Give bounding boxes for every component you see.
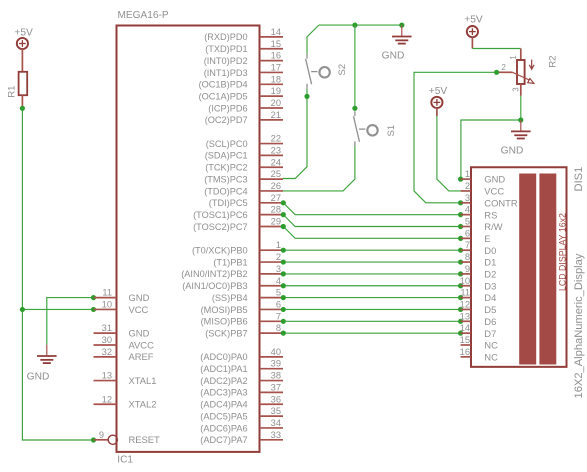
wire R2 wiper to LCD CONTR <box>414 72 497 203</box>
svg-text:32: 32 <box>102 347 112 357</box>
pin 37 (ADC3)PA3 <box>200 382 283 397</box>
svg-text:16X2_AlphaNumeric_Display: 16X2_AlphaNumeric_Display <box>573 253 585 398</box>
svg-text:(OC2)PD7: (OC2)PD7 <box>205 115 248 125</box>
svg-text:13: 13 <box>460 311 470 321</box>
pin 7 (MISO)PB6 <box>201 311 283 326</box>
svg-text:(ADC3)PA3: (ADC3)PA3 <box>200 388 247 398</box>
svg-text:4: 4 <box>276 276 281 286</box>
svg-text:3: 3 <box>511 87 520 91</box>
wire PB3 to LCD D3 <box>283 285 460 287</box>
svg-text:16: 16 <box>271 51 281 61</box>
pin 22 (SCL)PC0 <box>206 134 283 149</box>
resistor R1 <box>19 72 28 107</box>
wire PB1 to LCD D1 <box>283 261 460 263</box>
svg-text:D6: D6 <box>484 316 496 327</box>
label MEGA16-P <box>118 10 169 21</box>
label IC1 <box>117 455 133 466</box>
svg-text:11: 11 <box>102 288 112 298</box>
R2 pin number 2 <box>502 63 506 72</box>
svg-text:6: 6 <box>276 299 281 309</box>
svg-text:15: 15 <box>460 335 470 345</box>
svg-text:34: 34 <box>271 418 281 428</box>
junction LCD D5 <box>458 307 463 312</box>
pin 29 (TOSC2)PC7 <box>193 217 283 232</box>
svg-text:8: 8 <box>465 252 470 262</box>
pin 14 (RXD)PD0 <box>204 27 283 42</box>
R2 pin number 3 <box>511 87 520 91</box>
svg-text:(T0/XCK)PB0: (T0/XCK)PB0 <box>192 246 248 256</box>
junction R2 ground <box>518 117 523 122</box>
svg-text:12: 12 <box>460 299 470 309</box>
pin 26 (TDO)PC4 <box>204 181 283 196</box>
svg-text:VCC: VCC <box>484 186 504 197</box>
svg-text:40: 40 <box>271 347 281 357</box>
svg-text:GND: GND <box>382 51 405 62</box>
switch S2 <box>306 54 330 89</box>
svg-text:(ADC6)PA6: (ADC6)PA6 <box>200 423 247 433</box>
svg-text:(TCK)PC2: (TCK)PC2 <box>205 163 247 173</box>
svg-text:R/W: R/W <box>484 221 502 232</box>
junction pin PB0 <box>281 248 286 253</box>
junction bus S1 branch <box>352 23 357 28</box>
svg-text:18: 18 <box>271 74 281 84</box>
pin 17 (INT1)PD3 <box>204 62 283 77</box>
svg-text:16: 16 <box>460 347 470 357</box>
wire bus to S2 top <box>307 25 319 54</box>
pin 36 (ADC4)PA4 <box>200 394 283 409</box>
junction rail VCC branch <box>20 307 25 312</box>
junction pin at (TOSC1)PC6 <box>281 212 286 217</box>
junction pin PB1 <box>281 259 286 264</box>
svg-text:8: 8 <box>276 323 281 333</box>
lcd pin 13 D6 <box>460 311 497 327</box>
ic U1 MEGA16-P body <box>117 26 260 452</box>
svg-text:9: 9 <box>465 264 470 274</box>
svg-text:MEGA16-P: MEGA16-P <box>118 10 169 21</box>
junction LCD E <box>458 236 463 241</box>
svg-text:(SS)PB4: (SS)PB4 <box>212 293 248 303</box>
svg-text:S1: S1 <box>386 125 397 137</box>
wire PB0 to LCD D0 <box>283 249 460 251</box>
svg-text:3: 3 <box>465 193 470 203</box>
junction LCD D4 <box>458 295 463 300</box>
wire S1 bottom to pin 26 (TDO)PC4 <box>283 146 355 191</box>
junction pin at (TOSC2)PC7 <box>281 224 286 229</box>
svg-text:39: 39 <box>271 359 281 369</box>
svg-text:XTAL1: XTAL1 <box>129 375 157 386</box>
svg-text:(ADC0)PA0: (ADC0)PA0 <box>200 352 247 362</box>
svg-text:19: 19 <box>271 86 281 96</box>
svg-text:AREF: AREF <box>129 351 154 362</box>
svg-text:(INT1)PD3: (INT1)PD3 <box>204 68 248 78</box>
lcd pin 8 D1 <box>461 252 497 268</box>
pin 11 GND <box>94 288 150 303</box>
wire S2 bottom to pin 25 (TMS)PC3 <box>283 89 307 179</box>
svg-text:GND: GND <box>129 327 150 338</box>
wire GND pin 11 to ground <box>47 298 94 345</box>
pin 16 (INT0)PD2 <box>204 51 283 66</box>
lcd pin 11 D4 <box>460 288 496 304</box>
pin 40 (ADC0)PA0 <box>200 347 283 362</box>
svg-text:15: 15 <box>271 39 281 49</box>
label 16X2_AlphaNumeric_Display <box>573 253 585 398</box>
svg-text:(ADC7)PA7: (ADC7)PA7 <box>200 435 247 445</box>
svg-text:7: 7 <box>465 240 470 250</box>
ground symbol (right) <box>511 120 531 139</box>
pin 6 (MOSI)PB5 <box>201 299 283 314</box>
junction pin PB4 <box>281 295 286 300</box>
svg-text:14: 14 <box>271 27 281 37</box>
junction VCC pin 10 <box>91 307 96 312</box>
wire PB4 to LCD D4 <box>283 297 460 299</box>
pin 34 (ADC6)PA6 <box>200 418 283 433</box>
svg-text:1: 1 <box>509 55 518 59</box>
svg-text:17: 17 <box>271 62 281 72</box>
svg-text:D2: D2 <box>484 269 496 280</box>
svg-text:D1: D1 <box>484 257 496 268</box>
junction S1 top <box>352 106 357 111</box>
label GND (left) <box>27 371 50 382</box>
junction pin PB5 <box>281 307 286 312</box>
pin 38 (ADC2)PA2 <box>200 371 283 386</box>
svg-text:7: 7 <box>276 311 281 321</box>
wire R1 to RESET rail <box>22 107 93 440</box>
label R2 <box>548 56 559 68</box>
svg-text:(OC1A)PD5: (OC1A)PD5 <box>199 91 248 101</box>
svg-text:CONTR: CONTR <box>484 197 518 208</box>
junction pin PB6 <box>281 319 286 324</box>
junction R1 bottom <box>20 106 25 111</box>
junction LCD GND pin 1 <box>458 177 463 182</box>
svg-text:AVCC: AVCC <box>129 339 155 350</box>
svg-text:VCC: VCC <box>129 304 149 315</box>
wire ground bus (top) <box>319 24 402 26</box>
pin 31 GND <box>94 323 150 338</box>
wire PB2 to LCD D2 <box>283 273 460 275</box>
svg-text:(ADC5)PA5: (ADC5)PA5 <box>200 411 247 421</box>
lcd pin 16 NC <box>460 347 498 363</box>
pin 23 (SDA)PC1 <box>205 145 283 160</box>
junction pin PB7 <box>281 331 286 336</box>
svg-text:D4: D4 <box>484 292 496 303</box>
svg-text:31: 31 <box>102 323 112 333</box>
+5V supply (top right) <box>467 26 478 49</box>
lcd pin 15 NC <box>460 335 498 351</box>
pin 12 XTAL2 <box>94 394 157 409</box>
svg-text:1: 1 <box>465 169 470 179</box>
wire bus to S1 top <box>354 25 356 108</box>
lcd pin 5 R/W <box>461 217 503 233</box>
svg-text:14: 14 <box>460 323 470 333</box>
svg-text:R1: R1 <box>7 86 18 98</box>
svg-text:(SCK)PB7: (SCK)PB7 <box>205 328 247 338</box>
ground symbol (left) <box>37 345 57 364</box>
label +5V (middle) <box>429 86 448 97</box>
pin 32 AREF <box>94 347 154 362</box>
label +5V (top left) <box>14 27 33 38</box>
+5V supply (middle) <box>431 97 442 116</box>
svg-text:13: 13 <box>102 371 112 381</box>
pin 10 VCC <box>94 299 149 314</box>
lcd pin 2 VCC <box>461 181 505 197</box>
pin 8 (SCK)PB7 <box>205 323 283 338</box>
pin 13 XTAL1 <box>94 371 157 386</box>
svg-text:6: 6 <box>465 228 470 238</box>
pin 20 (ICP)PD6 <box>208 98 283 113</box>
svg-text:+5V: +5V <box>429 86 448 97</box>
svg-text:33: 33 <box>271 430 281 440</box>
lcd pin 6 E <box>461 228 491 244</box>
svg-text:(OC1B)PD4: (OC1B)PD4 <box>199 80 248 90</box>
svg-text:35: 35 <box>271 406 281 416</box>
wire PB7 to LCD D7 <box>283 332 460 334</box>
svg-text:RS: RS <box>484 209 497 220</box>
svg-text:(MOSI)PB5: (MOSI)PB5 <box>201 305 248 315</box>
pin 30 AVCC <box>94 335 155 350</box>
svg-text:26: 26 <box>271 181 281 191</box>
svg-text:27: 27 <box>271 193 281 203</box>
lcd pin 4 RS <box>461 205 498 221</box>
pin 28 (TOSC1)PC6 <box>193 205 283 220</box>
svg-text:R2: R2 <box>548 56 559 68</box>
svg-text:D3: D3 <box>484 280 496 291</box>
svg-text:(AIN1/OC0)PB3: (AIN1/OC0)PB3 <box>182 281 247 291</box>
wire (TOSC1)PC6 to LCD R/W <box>283 215 461 227</box>
svg-text:S2: S2 <box>337 64 348 76</box>
junction LCD D0 <box>458 248 463 253</box>
wire (TDI)PC5 to LCD RS <box>283 203 461 215</box>
svg-text:1: 1 <box>276 240 281 250</box>
svg-text:36: 36 <box>271 394 281 404</box>
svg-text:10: 10 <box>102 299 112 309</box>
lcd pin 9 D2 <box>461 264 497 280</box>
pin 24 (TCK)PC2 <box>205 157 283 172</box>
lcd pin 10 D3 <box>460 276 497 292</box>
svg-text:23: 23 <box>271 145 281 155</box>
svg-text:(ADC1)PA1: (ADC1)PA1 <box>200 364 247 374</box>
wire (TOSC2)PC7 to LCD E <box>283 227 461 239</box>
junction bus end at ground <box>399 23 404 28</box>
svg-text:GND: GND <box>501 146 524 157</box>
junction LCD D2 <box>458 271 463 276</box>
svg-text:GND: GND <box>484 174 505 185</box>
pin 19 (OC1A)PD5 <box>199 86 283 101</box>
svg-text:+5V: +5V <box>464 15 483 26</box>
svg-text:+5V: +5V <box>14 27 33 38</box>
pin 2 (T1)PB1 <box>213 252 283 267</box>
lcd screen bar left <box>519 174 536 365</box>
svg-text:2: 2 <box>276 252 281 262</box>
lcd pin 3 CONTR <box>461 193 518 209</box>
svg-text:29: 29 <box>271 217 281 227</box>
pin 27 (TDI)PC5 <box>209 193 283 208</box>
svg-text:NC: NC <box>484 351 498 362</box>
lcd pin 12 D5 <box>460 299 497 315</box>
svg-text:(TXD)PD1: (TXD)PD1 <box>205 44 247 54</box>
pin 3 (AIN0/INT2)PB2 <box>181 264 283 279</box>
junction LCD D6 <box>458 319 463 324</box>
label DIS1 <box>573 167 585 192</box>
svg-text:30: 30 <box>102 335 112 345</box>
label S1 <box>386 125 397 137</box>
svg-text:(SCL)PC0: (SCL)PC0 <box>206 139 248 149</box>
junction LCD D1 <box>458 259 463 264</box>
svg-text:RESET: RESET <box>129 434 161 445</box>
pin 35 (ADC5)PA5 <box>200 406 283 421</box>
svg-text:37: 37 <box>271 382 281 392</box>
svg-text:GND: GND <box>27 371 50 382</box>
lcd pin 7 D0 <box>461 240 497 256</box>
svg-text:GND: GND <box>129 292 150 303</box>
junction pin at (TDI)PC5 <box>281 200 286 205</box>
svg-text:5: 5 <box>465 217 470 227</box>
svg-text:38: 38 <box>271 371 281 381</box>
wire +5V to R2 pin 1 <box>472 48 520 50</box>
pin 39 (ADC1)PA1 <box>200 359 283 374</box>
svg-text:28: 28 <box>271 205 281 215</box>
svg-text:10: 10 <box>460 276 470 286</box>
junction pin PB3 <box>281 283 286 288</box>
label S2 <box>337 64 348 76</box>
pin 18 (OC1B)PD4 <box>199 74 283 89</box>
junction S2 bottom <box>304 94 309 99</box>
junction LCD D3 <box>458 283 463 288</box>
svg-text:11: 11 <box>460 288 470 298</box>
svg-text:21: 21 <box>271 110 281 120</box>
pin 21 (OC2)PD7 <box>205 110 283 125</box>
pin 1 (T0/XCK)PB0 <box>192 240 283 255</box>
svg-text:(ADC4)PA4: (ADC4)PA4 <box>200 400 247 410</box>
svg-text:(INT0)PD2: (INT0)PD2 <box>204 56 248 66</box>
pin 4 (AIN1/OC0)PB3 <box>182 276 283 291</box>
svg-text:(SDA)PC1: (SDA)PC1 <box>205 151 248 161</box>
svg-text:2: 2 <box>465 181 470 191</box>
svg-text:(ICP)PD6: (ICP)PD6 <box>208 103 247 113</box>
svg-text:(ADC2)PA2: (ADC2)PA2 <box>200 376 247 386</box>
wire ground junction to LCD GND pin 1 <box>461 120 521 179</box>
svg-text:24: 24 <box>271 157 281 167</box>
svg-text:E: E <box>484 233 490 244</box>
R2 pin number 1 <box>509 55 518 59</box>
pin 33 (ADC7)PA7 <box>200 430 283 445</box>
svg-text:(TMS)PC3: (TMS)PC3 <box>204 174 247 184</box>
svg-text:XTAL2: XTAL2 <box>129 399 157 410</box>
svg-text:4: 4 <box>465 205 470 215</box>
label R1 <box>7 86 18 98</box>
wire +5V to LCD VCC pin 2 <box>437 116 461 191</box>
lcd module DIS1 body <box>471 167 567 367</box>
junction LCD D7 <box>458 331 463 336</box>
svg-text:(TDI)PC5: (TDI)PC5 <box>209 198 248 208</box>
pin 5 (SS)PB4 <box>212 288 283 303</box>
svg-text:DIS1: DIS1 <box>573 167 585 192</box>
wire R2 pin 3 to ground junction <box>520 96 522 120</box>
potentiometer R2 <box>497 49 534 96</box>
label +5V (top right) <box>464 15 483 26</box>
svg-text:LCD DISPLAY 16x2: LCD DISPLAY 16x2 <box>557 213 567 291</box>
svg-text:5: 5 <box>276 288 281 298</box>
junction LCD RS <box>458 212 463 217</box>
label GND (right) <box>501 146 524 157</box>
wire PB6 to LCD D6 <box>283 320 460 322</box>
svg-text:(T1)PB1: (T1)PB1 <box>213 257 247 267</box>
wire PB5 to LCD D5 <box>283 308 460 310</box>
svg-text:(TOSC2)PC7: (TOSC2)PC7 <box>193 222 247 232</box>
junction pin PB2 <box>281 271 286 276</box>
+5V supply (top left) <box>17 38 28 72</box>
ground symbol (top) <box>392 25 412 43</box>
lcd pin 1 GND <box>461 169 506 185</box>
svg-text:(TOSC1)PC6: (TOSC1)PC6 <box>193 210 247 220</box>
svg-text:D7: D7 <box>484 328 496 339</box>
junction LCD R/W <box>458 224 463 229</box>
junction LCD CONTR pin 3 <box>458 200 463 205</box>
svg-text:3: 3 <box>276 264 281 274</box>
svg-text:D0: D0 <box>484 245 496 256</box>
svg-text:(AIN0/INT2)PB2: (AIN0/INT2)PB2 <box>181 269 247 279</box>
switch S1 <box>354 111 378 146</box>
svg-text:IC1: IC1 <box>117 455 133 466</box>
svg-text:(RXD)PD0: (RXD)PD0 <box>204 32 247 42</box>
label GND (top) <box>382 51 405 62</box>
svg-text:D5: D5 <box>484 304 496 315</box>
pin 15 (TXD)PD1 <box>205 39 283 54</box>
svg-text:20: 20 <box>271 98 281 108</box>
svg-text:(MISO)PB6: (MISO)PB6 <box>201 317 248 327</box>
junction R2 wiper <box>494 70 499 75</box>
R2 adjustment arrow <box>529 60 534 70</box>
wire rail to VCC pin 10 <box>22 308 93 310</box>
svg-text:(TDO)PC4: (TDO)PC4 <box>204 186 247 196</box>
lcd pin 14 D7 <box>460 323 497 339</box>
svg-text:9: 9 <box>99 430 104 440</box>
svg-text:25: 25 <box>271 169 281 179</box>
label LCD DISPLAY 16x2 <box>557 213 567 291</box>
svg-text:22: 22 <box>271 134 281 144</box>
junction RESET pin 9 <box>91 437 96 442</box>
pin 25 (TMS)PC3 <box>204 169 283 184</box>
lcd screen bar right <box>539 174 556 365</box>
svg-text:NC: NC <box>484 340 498 351</box>
svg-text:2: 2 <box>502 63 506 72</box>
junction GND pin 11 <box>91 295 96 300</box>
pin 9 RESET with inversion bubble <box>94 430 161 445</box>
svg-text:12: 12 <box>102 394 112 404</box>
